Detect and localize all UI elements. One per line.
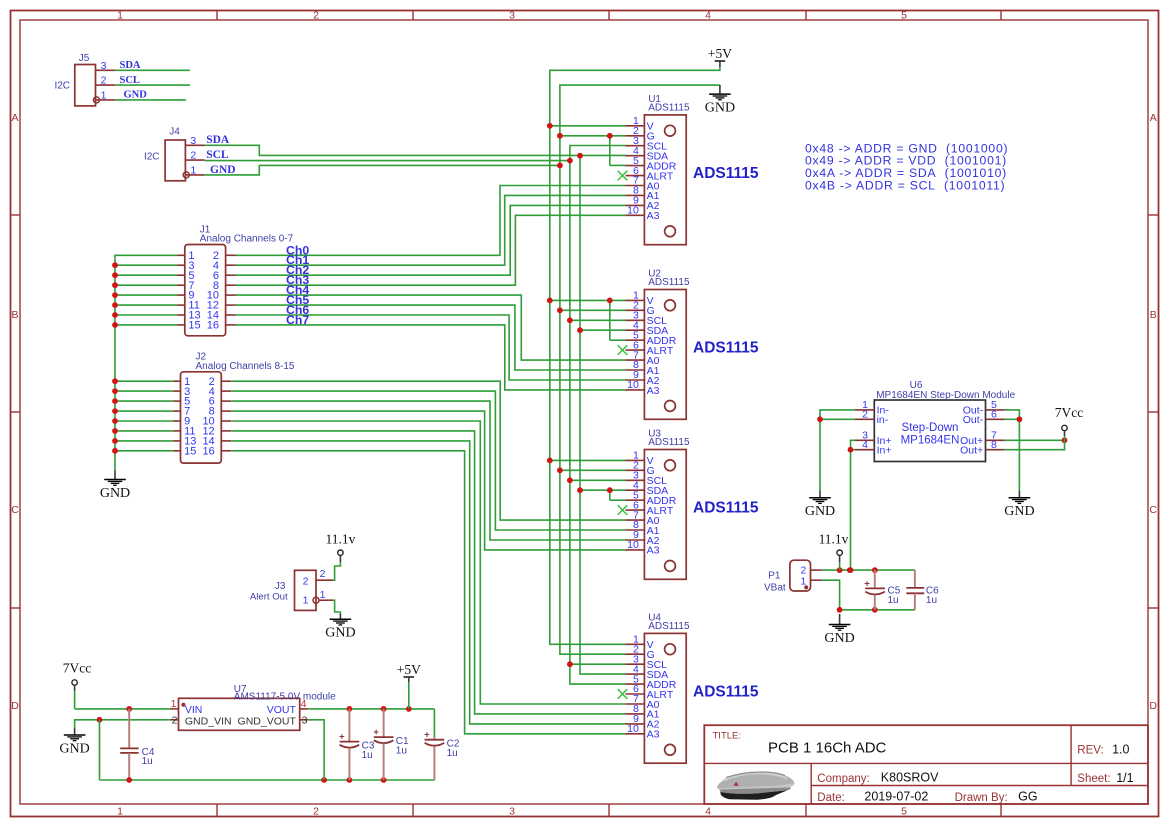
- svg-text:4: 4: [301, 698, 307, 710]
- svg-text:Date:: Date:: [817, 792, 845, 804]
- svg-text:GND: GND: [325, 626, 355, 641]
- svg-text:In+: In+: [877, 445, 892, 457]
- svg-text:A: A: [1150, 112, 1157, 124]
- svg-text:GND: GND: [124, 90, 148, 101]
- svg-text:B: B: [1150, 309, 1157, 321]
- svg-text:7Vcc: 7Vcc: [1055, 405, 1083, 420]
- svg-text:1u: 1u: [926, 595, 937, 606]
- svg-text:3: 3: [190, 135, 196, 147]
- svg-text:GND: GND: [824, 631, 854, 646]
- svg-text:1u: 1u: [396, 746, 407, 757]
- svg-text:I2C: I2C: [54, 81, 70, 92]
- svg-text:C: C: [11, 504, 19, 516]
- svg-text:1u: 1u: [447, 748, 458, 759]
- svg-text:A3: A3: [647, 545, 660, 557]
- svg-text:2: 2: [172, 715, 178, 727]
- svg-text:ADS1115: ADS1115: [648, 437, 690, 448]
- svg-text:ADS1115: ADS1115: [693, 500, 759, 517]
- svg-text:Analog Channels 0-7: Analog Channels 0-7: [200, 234, 294, 245]
- svg-text:2: 2: [313, 9, 319, 21]
- svg-text:GND_VIN: GND_VIN: [185, 715, 232, 727]
- svg-text:B: B: [11, 309, 18, 321]
- svg-text:0x4B -> ADDR = SCL (1001011): 0x4B -> ADDR = SCL (1001011): [805, 178, 1005, 192]
- svg-text:+: +: [373, 727, 379, 738]
- svg-text:TITLE:: TITLE:: [713, 731, 742, 742]
- svg-text:15: 15: [184, 445, 196, 457]
- svg-text:+: +: [424, 730, 430, 741]
- svg-text:2: 2: [101, 75, 107, 87]
- svg-text:A3: A3: [647, 210, 660, 222]
- svg-text:1: 1: [117, 9, 123, 21]
- svg-text:SCL: SCL: [120, 75, 140, 86]
- svg-text:Sheet:: Sheet:: [1077, 773, 1110, 785]
- svg-text:10: 10: [627, 205, 639, 217]
- svg-text:VIN: VIN: [185, 704, 203, 716]
- svg-text:D: D: [1149, 700, 1157, 712]
- svg-text:16: 16: [202, 445, 214, 457]
- svg-text:ADS1115: ADS1115: [648, 103, 690, 114]
- svg-text:ADS1115: ADS1115: [648, 621, 690, 632]
- svg-text:2: 2: [862, 409, 868, 421]
- svg-text:5: 5: [901, 9, 907, 21]
- svg-text:Company:: Company:: [817, 773, 869, 785]
- svg-text:4: 4: [705, 9, 711, 21]
- svg-text:ADS1115: ADS1115: [693, 165, 759, 182]
- svg-text:1: 1: [101, 89, 107, 101]
- svg-text:REV:: REV:: [1077, 745, 1103, 757]
- svg-text:J5: J5: [79, 53, 90, 64]
- svg-text:8: 8: [991, 439, 997, 451]
- svg-text:1: 1: [320, 589, 326, 601]
- svg-text:7Vcc: 7Vcc: [63, 661, 91, 676]
- svg-text:1: 1: [190, 164, 196, 176]
- svg-text:SDA: SDA: [206, 134, 230, 146]
- svg-text:Alert Out: Alert Out: [250, 591, 288, 602]
- svg-text:Analog Channels 8-15: Analog Channels 8-15: [196, 361, 295, 372]
- svg-text:1/1: 1/1: [1116, 771, 1133, 785]
- svg-text:11.1v: 11.1v: [819, 532, 849, 547]
- svg-text:Out+: Out+: [960, 445, 983, 457]
- svg-text:2: 2: [190, 150, 196, 162]
- svg-text:GND: GND: [1004, 504, 1034, 519]
- svg-text:SCL: SCL: [206, 149, 229, 161]
- svg-text:1: 1: [303, 595, 309, 607]
- svg-text:C: C: [1149, 504, 1157, 516]
- svg-text:MP1684EN: MP1684EN: [901, 435, 960, 447]
- svg-text:GND: GND: [705, 101, 735, 116]
- svg-text:+: +: [339, 731, 345, 742]
- svg-text:10: 10: [627, 539, 639, 551]
- svg-text:ADS1115: ADS1115: [693, 340, 759, 357]
- svg-text:1: 1: [117, 805, 123, 817]
- svg-text:GND: GND: [805, 504, 835, 519]
- svg-text:I2C: I2C: [144, 152, 160, 163]
- svg-text:GND_VOUT: GND_VOUT: [238, 715, 297, 727]
- svg-text:1u: 1u: [888, 595, 899, 606]
- svg-text:+5V: +5V: [708, 46, 732, 61]
- svg-text:Drawn By:: Drawn By:: [955, 792, 1008, 804]
- svg-text:A3: A3: [647, 385, 660, 397]
- svg-text:ADS1115: ADS1115: [693, 683, 759, 700]
- svg-text:3: 3: [101, 60, 107, 72]
- svg-text:4: 4: [705, 805, 711, 817]
- svg-text:10: 10: [627, 379, 639, 391]
- svg-text:in-: in-: [877, 414, 889, 426]
- svg-text:3: 3: [509, 805, 515, 817]
- svg-text:Ch7: Ch7: [286, 313, 309, 327]
- svg-text:3: 3: [302, 715, 308, 727]
- svg-text:ADS1115: ADS1115: [648, 277, 690, 288]
- svg-text:1u: 1u: [362, 750, 373, 761]
- svg-text:2019-07-02: 2019-07-02: [864, 790, 928, 804]
- svg-text:+: +: [864, 578, 870, 589]
- svg-text:P1: P1: [768, 571, 781, 582]
- svg-text:2: 2: [320, 568, 326, 580]
- svg-text:15: 15: [188, 320, 200, 332]
- svg-text:VBat: VBat: [764, 583, 786, 594]
- svg-text:SDA: SDA: [120, 60, 141, 71]
- svg-text:K80SROV: K80SROV: [881, 771, 939, 785]
- svg-text:16: 16: [207, 320, 219, 332]
- svg-text:1u: 1u: [142, 756, 153, 767]
- svg-text:AMS1117-5.0V module: AMS1117-5.0V module: [234, 692, 336, 703]
- svg-text:GND: GND: [100, 486, 130, 501]
- svg-text:6: 6: [991, 409, 997, 421]
- svg-text:11.1v: 11.1v: [325, 532, 355, 547]
- svg-text:PCB 1 16Ch ADC: PCB 1 16Ch ADC: [768, 740, 887, 757]
- svg-text:+5V: +5V: [397, 662, 421, 677]
- svg-text:VOUT: VOUT: [267, 704, 297, 716]
- svg-text:D: D: [11, 700, 19, 712]
- svg-text:3: 3: [509, 9, 515, 21]
- svg-text:10: 10: [627, 723, 639, 735]
- svg-text:GND: GND: [59, 742, 89, 757]
- svg-text:GG: GG: [1018, 790, 1037, 804]
- svg-text:Out-: Out-: [963, 414, 984, 426]
- svg-text:1: 1: [171, 698, 177, 710]
- svg-text:A3: A3: [647, 729, 660, 741]
- svg-text:2: 2: [303, 575, 309, 587]
- svg-text:J4: J4: [169, 127, 180, 138]
- svg-text:2: 2: [313, 805, 319, 817]
- svg-text:5: 5: [901, 805, 907, 817]
- svg-text:A: A: [11, 112, 18, 124]
- svg-text:4: 4: [862, 439, 868, 451]
- svg-text:Step-Down: Step-Down: [902, 422, 959, 434]
- svg-text:1.0: 1.0: [1112, 743, 1129, 757]
